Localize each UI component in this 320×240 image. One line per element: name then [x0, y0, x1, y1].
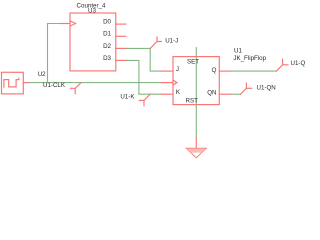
- svg-text:U1: U1: [234, 48, 242, 55]
- svg-text:U2: U2: [38, 71, 46, 78]
- svg-text:U1-Q: U1-Q: [291, 60, 306, 67]
- svg-text:RST: RST: [186, 98, 199, 105]
- svg-text:U1-CLK: U1-CLK: [43, 82, 66, 89]
- svg-text:U3: U3: [88, 8, 96, 15]
- svg-text:D2: D2: [103, 43, 111, 50]
- svg-text:J: J: [176, 66, 179, 73]
- svg-text:U1-K: U1-K: [120, 93, 135, 100]
- svg-text:QN: QN: [207, 90, 216, 97]
- svg-text:Q: Q: [212, 67, 217, 74]
- svg-text:U1-QN: U1-QN: [257, 85, 276, 92]
- svg-text:D0: D0: [103, 18, 111, 25]
- svg-text:D3: D3: [103, 55, 111, 62]
- svg-text:U1-J: U1-J: [165, 38, 178, 45]
- svg-text:SET: SET: [187, 58, 199, 65]
- svg-text:JK_FlipFlop: JK_FlipFlop: [233, 55, 266, 62]
- svg-text:D1: D1: [103, 31, 111, 38]
